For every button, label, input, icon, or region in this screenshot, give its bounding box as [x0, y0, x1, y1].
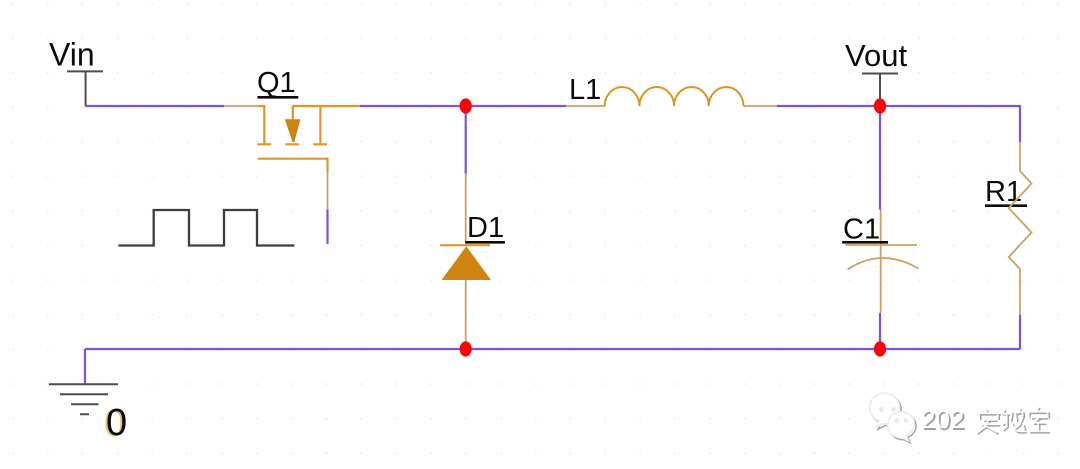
wire ground drop (purple) — [84, 349, 86, 384]
svg-text:Q1: Q1 — [257, 67, 296, 99]
wire Q1 source pin (tan) — [224, 105, 259, 107]
wire D1 cathode pin (tan) — [465, 174, 467, 244]
svg-text:Vout: Vout — [845, 38, 907, 73]
wire Vin to Q1 source (purple) — [85, 105, 224, 107]
wire Q1 drain to node A (purple) — [360, 105, 566, 107]
transistor Q1 body arrow — [285, 119, 301, 142]
svg-text:C1: C1 — [843, 214, 880, 246]
ground — [49, 384, 118, 414]
wire Vout node to C1 (purple) — [879, 106, 881, 210]
watermark text shiyanshi — [977, 407, 1050, 434]
wire R1 top pin (tan) — [1019, 142, 1021, 171]
wire C1 to ground rail (purple) — [879, 313, 881, 349]
junction node C1 ground — [874, 341, 886, 356]
wire L1 right pin (tan) — [744, 105, 778, 107]
Vin terminal — [67, 71, 103, 106]
wire Q1 gate pin (tan) — [327, 172, 329, 210]
wire D1 anode pin (tan) — [465, 280, 467, 343]
svg-text:D1: D1 — [467, 212, 504, 244]
Vout terminal — [862, 74, 898, 107]
diode D1 label underline — [465, 241, 505, 244]
wire ground rail (purple) — [85, 348, 1020, 350]
wire C1 top pin (tan) — [880, 210, 882, 245]
svg-text:202: 202 — [921, 404, 964, 434]
wire R1 bottom pin (tan) — [1019, 269, 1021, 315]
wire C1 bottom pin (tan) — [880, 245, 882, 313]
wire R1 to ground rail (purple) — [1019, 315, 1021, 349]
junction node A bottom — [460, 341, 472, 356]
gate drive square wave — [119, 210, 295, 246]
resistor R1 label underline — [985, 204, 1027, 207]
wire node A to D1 (purple) — [465, 106, 467, 174]
transistor Q1 — [257, 106, 360, 172]
capacitor C1 label underline — [842, 241, 888, 244]
transistor Q1 label underline — [257, 96, 298, 99]
junction node Vout — [874, 98, 886, 113]
svg-text:L1: L1 — [569, 74, 601, 106]
svg-text:Vin: Vin — [49, 37, 95, 73]
resistor R1 — [1009, 171, 1032, 269]
svg-text:0: 0 — [106, 402, 127, 444]
wire gate drive (purple) — [326, 210, 328, 244]
capacitor C1 — [845, 245, 918, 270]
inductor L1 — [605, 87, 744, 106]
wire L1 left pin (tan) — [566, 105, 605, 107]
watermark text 202 — [921, 404, 966, 436]
svg-text:R1: R1 — [985, 176, 1022, 208]
diode D1 — [440, 245, 491, 280]
junction node A top — [460, 98, 472, 113]
wire L1 to Vout node and R1 (purple) — [777, 106, 1020, 142]
watermark logo — [870, 393, 917, 443]
